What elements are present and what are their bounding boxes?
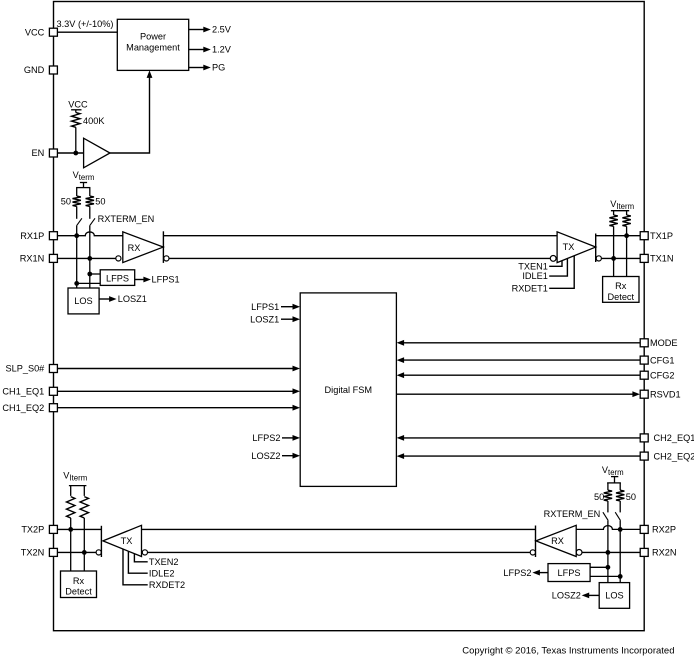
pin EN xyxy=(49,149,57,157)
svg-text:RXDET1: RXDET1 xyxy=(512,283,548,293)
svg-text:Management: Management xyxy=(126,42,180,52)
svg-text:RX2N: RX2N xyxy=(652,548,677,558)
svg-text:CFG1: CFG1 xyxy=(650,355,675,365)
TX1 output bar xyxy=(595,234,597,263)
wire RX1P (hop over RX1N leg) xyxy=(57,232,122,236)
junction EN/pull-up xyxy=(73,151,78,156)
svg-text:PG: PG xyxy=(212,63,225,73)
svg-text:50: 50 xyxy=(626,492,636,502)
svg-text:TX2P: TX2P xyxy=(21,525,44,535)
svg-text:VIterm: VIterm xyxy=(63,471,87,483)
pin SLP_S0# xyxy=(49,365,57,373)
svg-text:50: 50 xyxy=(61,196,71,206)
junction RX2N/termination xyxy=(607,521,609,568)
svg-text:RXTERM_EN: RXTERM_EN xyxy=(98,214,155,224)
wires terminations to Rx Detect 1 xyxy=(613,258,615,276)
resistor 400K pull-up xyxy=(75,110,77,113)
junction RX1P/termination xyxy=(76,226,78,284)
wire CH2_EQ2 to FSM xyxy=(402,455,640,457)
svg-text:LOSZ1: LOSZ1 xyxy=(118,294,147,304)
svg-text:VCC: VCC xyxy=(25,27,45,37)
wires terminations to LOS2 xyxy=(607,567,609,582)
svg-text:TX: TX xyxy=(563,242,575,252)
svg-text:LOSZ1: LOSZ1 xyxy=(250,314,279,324)
svg-text:RX1P: RX1P xyxy=(20,231,44,241)
svg-text:IDLE1: IDLE1 xyxy=(522,271,548,281)
amplifier RX (channel 1) xyxy=(123,232,163,263)
svg-text:RX2P: RX2P xyxy=(652,525,676,535)
Rx Detect block (channel 2) xyxy=(61,571,97,598)
svg-text:RXTERM_EN: RXTERM_EN xyxy=(544,509,601,519)
resistor 50 (RX2P) xyxy=(619,483,621,490)
wire CH2_EQ1 to FSM xyxy=(402,437,640,439)
arrow LFPS1 out xyxy=(135,279,145,281)
resistor term (TX1N) xyxy=(613,211,615,215)
wire RX1N xyxy=(57,257,115,259)
TX2 output bar xyxy=(100,526,102,557)
pin TX1N xyxy=(640,254,648,262)
wire RX2P (hop over RX2N leg) xyxy=(576,526,640,530)
svg-text:TX: TX xyxy=(121,536,133,546)
resistor term (TX2P) xyxy=(70,486,72,496)
svg-text:LFPS1: LFPS1 xyxy=(251,302,279,312)
switch RXTERM_EN (RX1P) xyxy=(77,218,82,226)
LFPS block (channel 2) xyxy=(548,564,590,582)
wire RX2 output P to TX2 xyxy=(142,528,536,530)
amplifier TX (channel 1) xyxy=(557,232,596,263)
LOS block (channel 1) xyxy=(68,288,99,314)
svg-text:EN: EN xyxy=(32,148,45,158)
wire RX1 output N to TX1 xyxy=(169,257,550,259)
svg-text:400K: 400K xyxy=(83,116,105,126)
junction TX2N/termination xyxy=(82,550,87,555)
svg-text:Detect: Detect xyxy=(608,292,635,302)
svg-text:RXDET2: RXDET2 xyxy=(149,580,185,590)
pin MODE xyxy=(640,339,648,347)
wire CH1_EQ1 to FSM xyxy=(57,390,294,392)
svg-text:VCC: VCC xyxy=(68,99,88,109)
wire TX1N xyxy=(601,257,640,259)
output 2.5V xyxy=(189,29,204,31)
svg-text:Rx: Rx xyxy=(73,576,85,586)
wire RX2N to LFPS2 block xyxy=(590,566,608,568)
pin CFG2 xyxy=(640,371,648,379)
pin CH2_EQ1 xyxy=(640,434,648,442)
wire VCC pin to Power Management xyxy=(57,31,117,33)
wire TX2P xyxy=(57,528,101,530)
junction RX2P/termination xyxy=(619,521,621,577)
pin RX2P xyxy=(640,525,648,533)
svg-text:LOS: LOS xyxy=(605,591,623,601)
svg-text:RX: RX xyxy=(551,536,564,546)
svg-text:3.3V (+/-10%): 3.3V (+/-10%) xyxy=(57,19,114,29)
svg-text:RSVD1: RSVD1 xyxy=(650,389,681,399)
svg-text:Detect: Detect xyxy=(65,586,92,596)
junction TX1P/termination xyxy=(624,233,629,238)
junction TX1N/termination xyxy=(611,256,616,261)
wire terminations to LOS1 xyxy=(76,283,78,288)
svg-text:Vterm: Vterm xyxy=(73,170,95,182)
svg-text:IDLE2: IDLE2 xyxy=(149,568,175,578)
switch RXTERM_EN (RX2N) xyxy=(603,512,608,520)
svg-text:GND: GND xyxy=(24,65,45,75)
pin CFG1 xyxy=(640,356,648,364)
LFPS block (channel 1) xyxy=(100,270,135,286)
wire RX2 output N to TX2 xyxy=(148,551,531,553)
bubble RX2N input xyxy=(576,550,582,556)
wire MODE to FSM xyxy=(402,342,640,344)
pin CH1_EQ1 xyxy=(49,387,57,395)
wire SLP_S0# to FSM xyxy=(57,368,294,370)
svg-text:LOSZ2: LOSZ2 xyxy=(552,591,581,601)
RX1 output bar xyxy=(162,231,164,263)
RX2 output bar xyxy=(535,526,537,558)
pin RX2N xyxy=(640,548,648,556)
pin TX2P xyxy=(49,525,57,533)
svg-text:LOSZ2: LOSZ2 xyxy=(251,451,280,461)
svg-text:LFPS2: LFPS2 xyxy=(252,433,280,443)
svg-text:LFPS2: LFPS2 xyxy=(503,568,531,578)
arrow LOSZ2 out xyxy=(589,594,600,596)
pin RX1N xyxy=(49,254,57,262)
svg-text:TXEN2: TXEN2 xyxy=(149,557,179,567)
svg-text:RX1N: RX1N xyxy=(20,254,45,264)
pin TX2N xyxy=(49,548,57,556)
svg-text:RX: RX xyxy=(128,243,141,253)
svg-text:MODE: MODE xyxy=(650,338,678,348)
pin GND xyxy=(49,66,57,74)
wire CFG1 to FSM xyxy=(402,359,640,361)
svg-text:SLP_S0#: SLP_S0# xyxy=(5,364,45,374)
wire RX2P to LFPS2 block xyxy=(590,575,620,577)
wire buffer to Power Management xyxy=(110,74,150,153)
svg-text:TX1N: TX1N xyxy=(650,254,674,264)
output PG xyxy=(189,67,204,69)
svg-text:LOS: LOS xyxy=(74,296,92,306)
arrow LOSZ1 out xyxy=(99,298,109,300)
bubble RX2 output N xyxy=(530,550,535,555)
pin VCC xyxy=(49,28,57,36)
pin RX1P xyxy=(49,232,57,240)
svg-text:CH2_EQ2: CH2_EQ2 xyxy=(654,451,694,461)
bubble TX1 input xyxy=(550,256,556,262)
wire RX1N to LFPS1 xyxy=(90,273,100,275)
svg-text:50: 50 xyxy=(594,492,604,502)
bubble TX2 input xyxy=(142,550,147,555)
svg-text:LFPS: LFPS xyxy=(558,568,581,578)
wires terminations to Rx Detect 2 xyxy=(70,529,72,571)
pin RSVD1 xyxy=(640,390,648,398)
wire TX1P xyxy=(596,235,641,237)
switch RXTERM_EN (RX1N) xyxy=(90,218,95,226)
bubble TX1 output xyxy=(596,256,601,261)
svg-text:Power: Power xyxy=(140,31,166,41)
svg-text:Digital FSM: Digital FSM xyxy=(325,385,372,395)
Rx Detect block (channel 1) xyxy=(603,277,639,303)
switch RXTERM_EN (RX2P) xyxy=(615,512,620,520)
wire TX2N xyxy=(57,551,96,553)
wire RX1 output P to TX1 xyxy=(163,235,557,237)
wire CFG2 to FSM xyxy=(402,374,640,376)
svg-text:CH1_EQ2: CH1_EQ2 xyxy=(2,403,44,413)
svg-text:1.2V: 1.2V xyxy=(212,45,232,55)
svg-text:CH2_EQ1: CH2_EQ1 xyxy=(654,433,694,443)
bubble TX2 output xyxy=(96,550,101,555)
resistor 50 (RX1N) xyxy=(89,188,91,196)
bubble RX1N input xyxy=(116,256,121,261)
amplifier RX (channel 2) xyxy=(536,525,576,556)
svg-text:TXEN1: TXEN1 xyxy=(518,261,548,271)
svg-text:LFPS: LFPS xyxy=(106,273,129,283)
svg-text:TX2N: TX2N xyxy=(21,548,45,558)
wire FSM to RSVD1 xyxy=(396,393,633,395)
resistor term (TX2N) xyxy=(83,486,85,496)
power management block xyxy=(117,19,188,70)
resistor 50 (RX1P) xyxy=(76,188,78,196)
wire CH1_EQ2 to FSM xyxy=(57,407,294,409)
digital FSM block xyxy=(300,293,396,487)
wire EN xyxy=(57,152,83,154)
svg-text:CFG2: CFG2 xyxy=(650,370,675,380)
junction RX1N/termination xyxy=(89,226,91,274)
output 1.2V xyxy=(189,49,204,51)
LOS block (channel 2) xyxy=(599,583,629,609)
bubble RX1 output N xyxy=(164,256,169,261)
pin TX1P xyxy=(640,232,648,240)
svg-text:Rx: Rx xyxy=(615,281,627,291)
svg-text:LFPS1: LFPS1 xyxy=(152,275,180,285)
wire RX1P to LFPS1 xyxy=(77,282,101,284)
buffer EN xyxy=(84,138,110,168)
pin CH1_EQ2 xyxy=(49,404,57,412)
pin CH2_EQ2 xyxy=(640,452,648,460)
svg-text:TX1P: TX1P xyxy=(650,231,673,241)
svg-text:Vterm: Vterm xyxy=(602,465,624,477)
junction TX2P/termination xyxy=(68,527,73,532)
svg-text:VIterm: VIterm xyxy=(610,199,634,211)
svg-text:Copyright © 2016, Texas Instru: Copyright © 2016, Texas Instruments Inco… xyxy=(462,645,674,656)
resistor term (TX1P) xyxy=(626,211,628,215)
amplifier TX (channel 2) xyxy=(103,525,142,556)
resistor 50 (RX2N) xyxy=(607,483,609,490)
svg-text:CH1_EQ1: CH1_EQ1 xyxy=(2,387,44,397)
arrow LFPS2 out xyxy=(539,572,548,574)
svg-text:50: 50 xyxy=(95,196,105,206)
wire RX2N xyxy=(582,551,640,553)
svg-text:2.5V: 2.5V xyxy=(212,25,232,35)
